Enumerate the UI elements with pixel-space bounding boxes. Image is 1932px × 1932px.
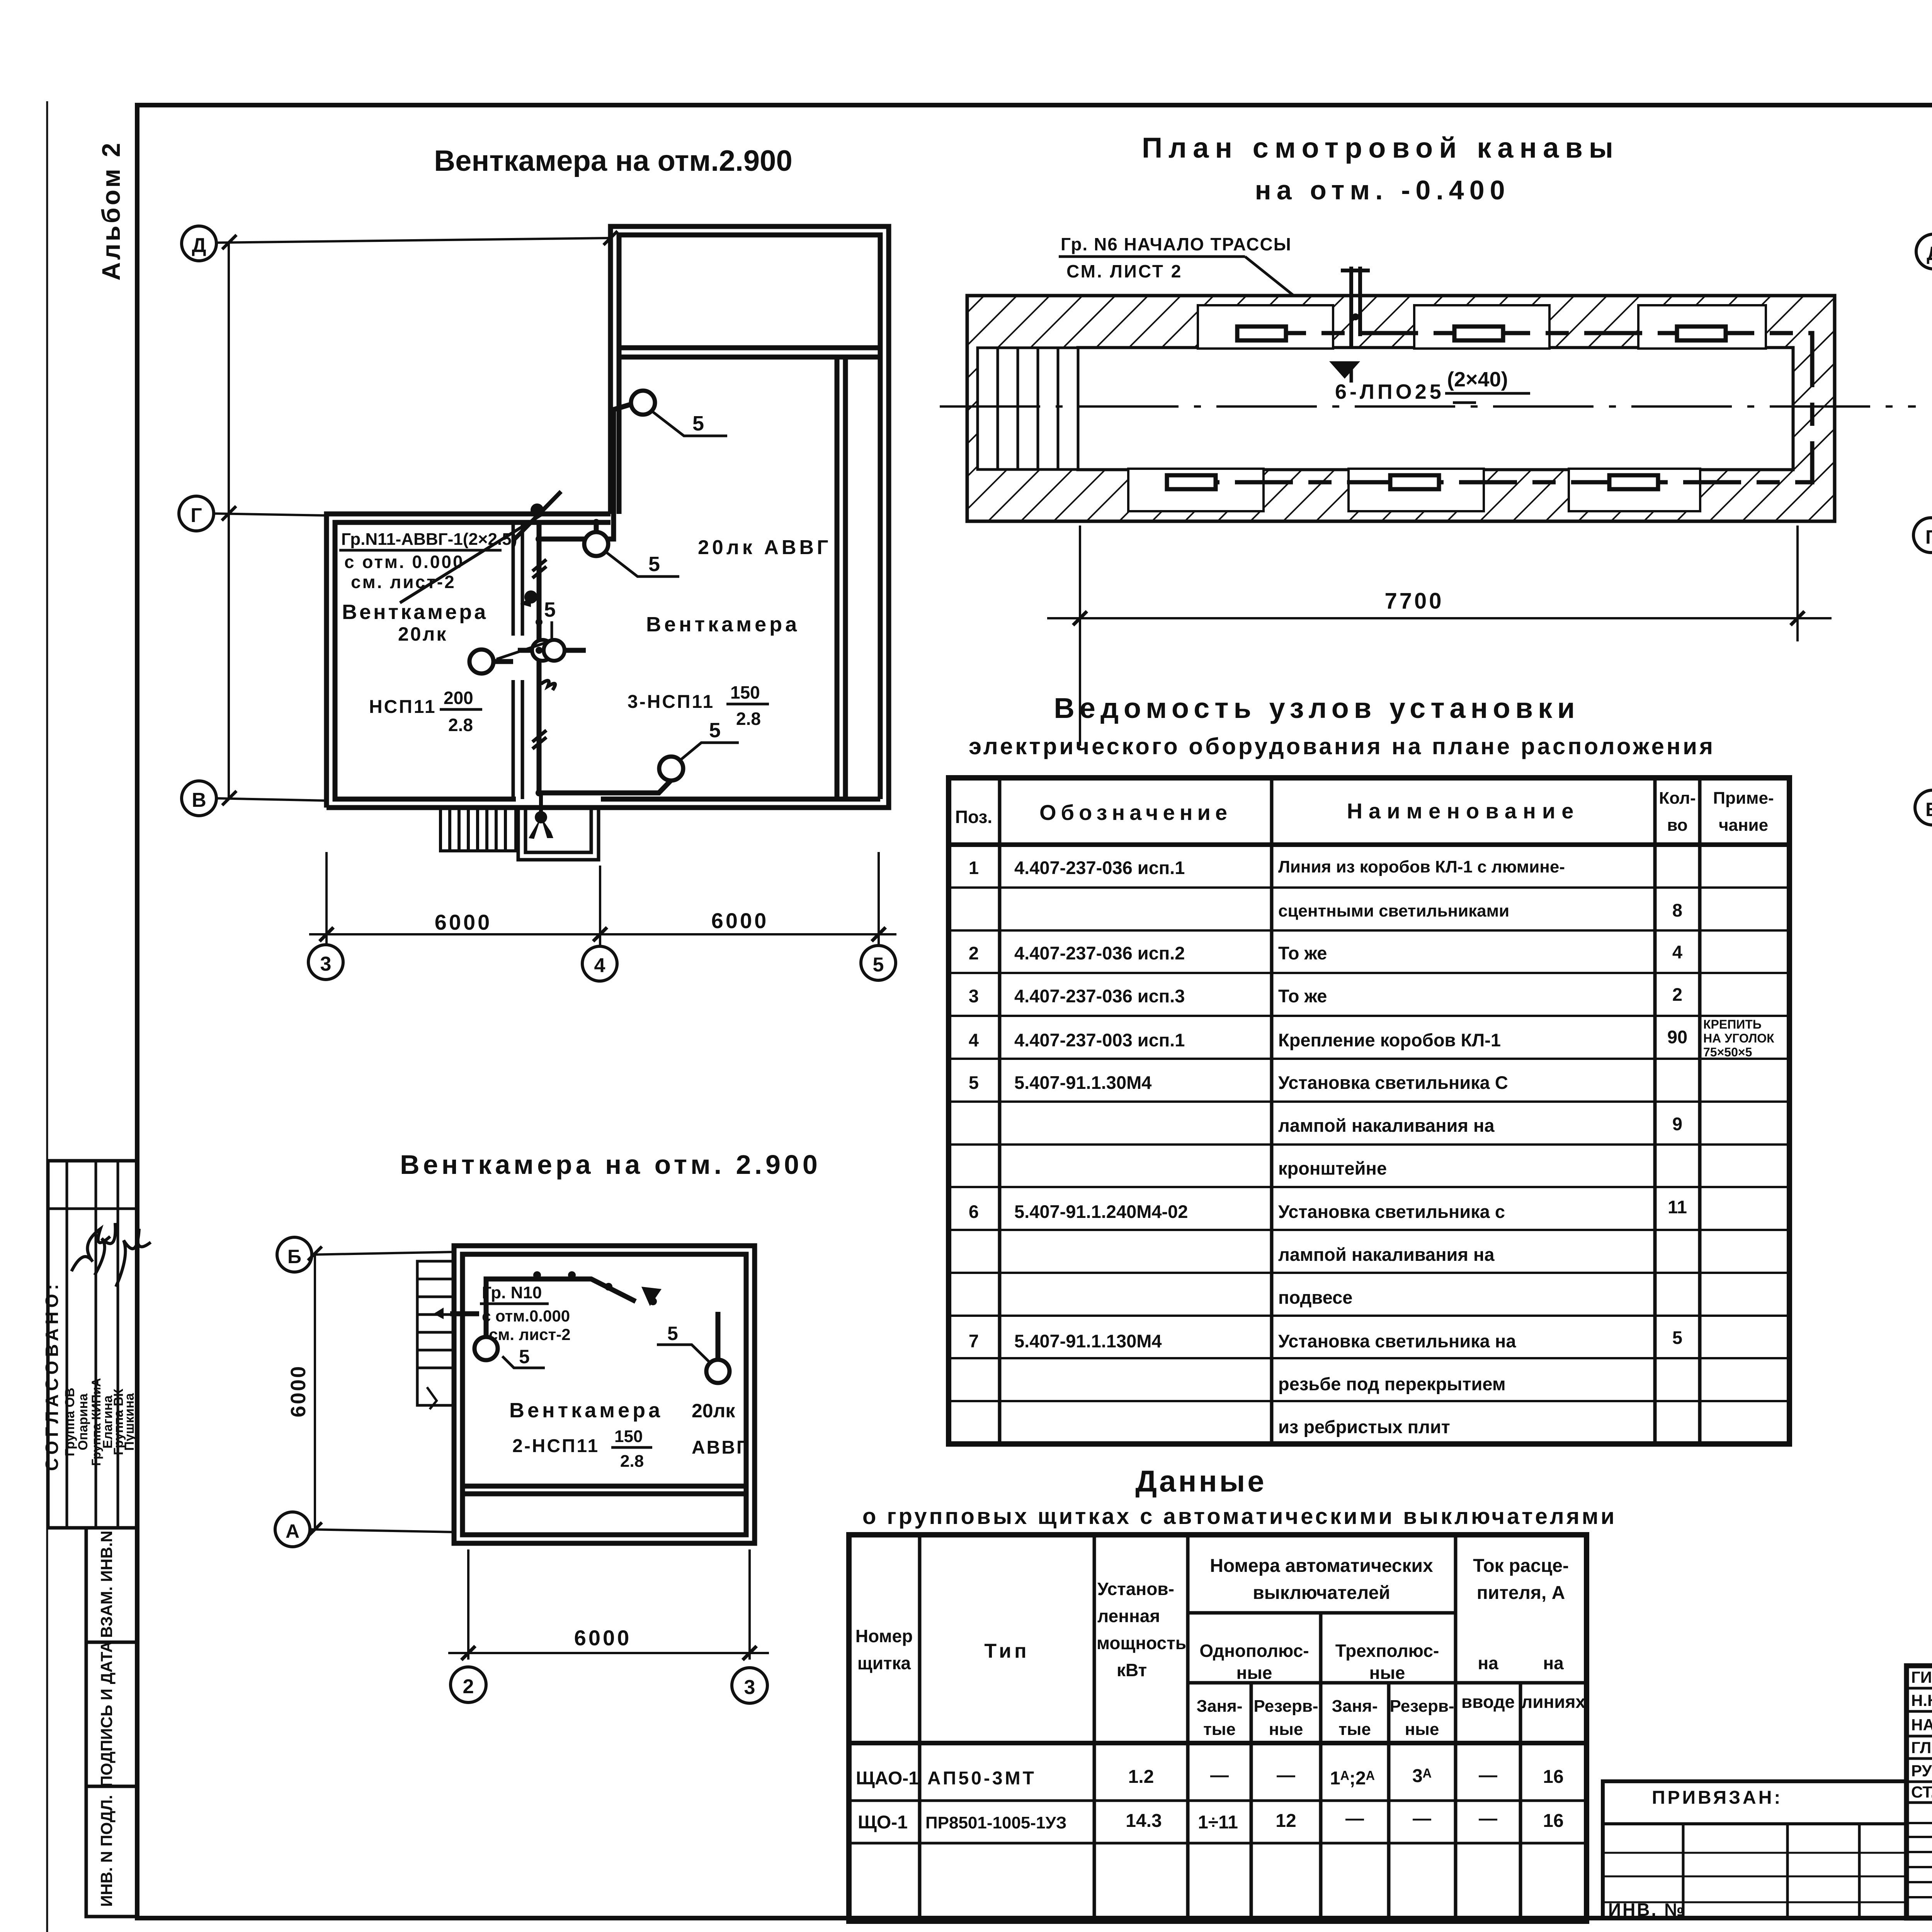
plan1 fixture dot at Г wall [531, 503, 544, 517]
svg-text:см. лист-2: см. лист-2 [351, 572, 456, 592]
svg-text:лампой накаливания на: лампой накаливания на [1278, 1115, 1495, 1136]
plan1 grid axis Г [179, 496, 327, 531]
svg-text:Венткамера на отм. 2.900: Венткамера на отм. 2.900 [400, 1150, 821, 1180]
left stamp column boxes [48, 1161, 137, 1917]
svg-text:В: В [1925, 799, 1932, 820]
svg-text:Гр. N6 НАЧАЛО ТРАССЫ: Гр. N6 НАЧАЛО ТРАССЫ [1061, 234, 1292, 254]
svg-text:Обозначение: Обозначение [1039, 800, 1232, 825]
plan1 lamp L4 [659, 757, 683, 781]
svg-text:тые: тые [1203, 1720, 1236, 1739]
svg-text:ные: ные [1369, 1663, 1405, 1683]
svg-text:Опарина: Опарина [76, 1393, 90, 1450]
svg-text:о групповых щитках с автомат: о групповых щитках с автоматическими вык… [862, 1504, 1617, 1529]
svg-text:6000: 6000 [574, 1626, 632, 1650]
svg-text:1: 1 [969, 857, 979, 878]
svg-text:200: 200 [444, 688, 473, 708]
svg-text:150: 150 [730, 682, 760, 702]
svg-text:НСП11: НСП11 [369, 697, 437, 717]
plan1 axis bubble 5 [861, 946, 896, 980]
plan1 junction dots [536, 536, 543, 543]
svg-text:7: 7 [969, 1331, 979, 1351]
svg-text:Трехполюс-: Трехполюс- [1335, 1641, 1439, 1661]
svg-text:6000: 6000 [287, 1365, 310, 1417]
channel lamp niches top [1198, 305, 1766, 349]
plan3 wiring [450, 1279, 718, 1360]
svg-text:16: 16 [1543, 1767, 1563, 1787]
plan1 walls left room [327, 514, 880, 808]
plan3 axis bubble 3 [732, 1668, 767, 1703]
svg-text:3: 3 [969, 986, 979, 1006]
svg-text:5: 5 [873, 954, 884, 976]
svg-text:9: 9 [1672, 1114, 1682, 1134]
svg-text:Линия из коробов КЛ-1 с люмине: Линия из коробов КЛ-1 с люмине- [1278, 857, 1565, 876]
svg-text:АВВГ: АВВГ [692, 1437, 748, 1458]
plan1 leader L2 [607, 553, 679, 577]
svg-text:СОГЛАСОВАНО:: СОГЛАСОВАНО: [42, 1280, 62, 1471]
plan1 wiring [493, 404, 671, 793]
svg-text:с отм.0.000: с отм.0.000 [482, 1307, 570, 1325]
svg-text:Альбом 2: Альбом 2 [97, 141, 125, 281]
svg-text:Венткамера: Венткамера [342, 600, 488, 624]
svg-text:(2×40): (2×40) [1447, 368, 1508, 391]
plan3 walls [454, 1246, 755, 1543]
svg-text:5: 5 [519, 1346, 530, 1367]
table2 headers [855, 1556, 1586, 1739]
svg-text:Наименование: Наименование [1347, 799, 1580, 823]
svg-text:ПРИВЯЗАН:: ПРИВЯЗАН: [1652, 1787, 1782, 1808]
svg-text:2: 2 [969, 943, 979, 963]
svg-text:Номера автоматических: Номера автоматических [1210, 1556, 1433, 1576]
svg-text:—: — [1479, 1765, 1497, 1786]
svg-text:Н.КОНТР.: Н.КОНТР. [1911, 1691, 1932, 1709]
svg-text:6-ЛПО25: 6-ЛПО25 [1335, 380, 1444, 403]
svg-text:То же: То же [1278, 986, 1327, 1006]
signature labels [1911, 1668, 1932, 1801]
svg-text:—: — [1277, 1765, 1295, 1786]
svg-text:В: В [192, 789, 206, 811]
svg-text:Резерв-: Резерв- [1253, 1697, 1318, 1716]
svg-text:20лк: 20лк [398, 623, 447, 645]
svg-text:4: 4 [969, 1030, 979, 1050]
plan1 leader L1 [652, 411, 727, 436]
svg-text:НА УГОЛОК: НА УГОЛОК [1703, 1031, 1774, 1045]
svg-text:ИНВ. №: ИНВ. № [1608, 1900, 1685, 1920]
svg-text:с отм. 0.000: с отм. 0.000 [344, 552, 464, 572]
svg-text:резьбе под перекрытием: резьбе под перекрытием [1278, 1374, 1506, 1394]
инв N подл box [86, 1786, 137, 1917]
plan3 stairs outside left [417, 1261, 454, 1409]
channel feed drop [1341, 267, 1370, 348]
svg-text:Группа ОВ: Группа ОВ [63, 1388, 77, 1456]
plan1 leader L4 [681, 743, 739, 760]
svg-text:2: 2 [463, 1675, 474, 1698]
svg-text:2.8: 2.8 [736, 709, 761, 729]
svg-text:сцентными светильниками: сцентными светильниками [1278, 901, 1509, 920]
svg-text:ные: ные [1236, 1663, 1272, 1683]
plan2 grid axis В [1915, 790, 1932, 825]
svg-text:5.407-91.1.240М4-02: 5.407-91.1.240М4-02 [1014, 1201, 1188, 1222]
plan1 bottom dimension [309, 852, 896, 947]
plan3 lamp left [474, 1337, 498, 1360]
svg-text:Ведомость узлов установки: Ведомость узлов установки [1054, 692, 1580, 724]
взам инв box [86, 1528, 137, 1642]
svg-text:ПР8501-1005-1УЗ: ПР8501-1005-1УЗ [925, 1813, 1066, 1832]
svg-text:5: 5 [709, 719, 721, 742]
svg-text:пителя, А: пителя, А [1477, 1583, 1565, 1603]
svg-text:4: 4 [1672, 942, 1682, 962]
svg-text:1÷11: 1÷11 [1198, 1812, 1238, 1833]
plan2 grid axis Г [1913, 518, 1932, 553]
svg-text:ные: ные [1269, 1720, 1303, 1739]
svg-text:6000: 6000 [711, 908, 769, 933]
svg-text:НАЧ. ОТД: НАЧ. ОТД [1911, 1716, 1932, 1734]
svg-text:ленная: ленная [1097, 1606, 1160, 1626]
channel wiring dashed top [1182, 333, 1812, 482]
svg-text:4: 4 [594, 954, 605, 977]
svg-text:ИНВ. N ПОДЛ.: ИНВ. N ПОДЛ. [97, 1795, 116, 1907]
svg-text:16: 16 [1543, 1811, 1563, 1831]
svg-text:электрического оборудования на: электрического оборудования на плане рас… [969, 733, 1715, 759]
svg-text:—: — [1210, 1765, 1229, 1786]
svg-text:7700: 7700 [1384, 588, 1444, 614]
svg-text:ГЛ.СПЕЦ: ГЛ.СПЕЦ [1911, 1738, 1932, 1757]
plan1 stairs [440, 808, 516, 851]
svg-text:Г: Г [190, 504, 202, 527]
channel stairs left [978, 348, 1078, 469]
svg-text:—: — [1479, 1808, 1497, 1829]
plan1 lamp L2 [584, 532, 608, 556]
plan1 grid axis Д [182, 226, 617, 798]
plan1 lamp L1 [631, 391, 655, 415]
channel lamps top row [1237, 327, 1726, 340]
svg-text:5: 5 [969, 1072, 979, 1093]
svg-text:Кол-: Кол- [1659, 789, 1696, 808]
approval signatures squiggles [71, 1223, 151, 1287]
svg-text:Номер: Номер [855, 1626, 913, 1646]
svg-text:А: А [286, 1520, 299, 1542]
svg-text:Гр. N10: Гр. N10 [482, 1283, 542, 1302]
svg-text:кВт: кВт [1117, 1660, 1147, 1680]
signature rows [1906, 1687, 1932, 1690]
svg-text:на: на [1543, 1653, 1564, 1673]
привязан box [1603, 1781, 1906, 1918]
svg-text:СМ. ЛИСТ 2: СМ. ЛИСТ 2 [1066, 261, 1182, 281]
svg-text:4.407-237-036 исп.3: 4.407-237-036 исп.3 [1014, 986, 1185, 1006]
svg-text:мощность: мощность [1097, 1633, 1186, 1653]
svg-text:КРЕПИТЬ: КРЕПИТЬ [1703, 1017, 1762, 1031]
svg-text:Венткамера: Венткамера [646, 613, 800, 636]
svg-text:3: 3 [744, 1676, 755, 1699]
svg-text:щитка: щитка [857, 1653, 911, 1673]
title block outer [1906, 1666, 1932, 1918]
svg-text:Установ-: Установ- [1097, 1579, 1174, 1599]
svg-text:линиях: линиях [1521, 1692, 1585, 1712]
plan1 riser marks [532, 560, 555, 749]
svg-text:лампой накаливания на: лампой накаливания на [1278, 1244, 1495, 1265]
svg-text:ЩАО-1: ЩАО-1 [856, 1768, 919, 1789]
svg-text:14.3: 14.3 [1126, 1811, 1162, 1831]
svg-text:из ребристых плит: из ребристых плит [1278, 1417, 1450, 1437]
plan1 partition wall [513, 522, 522, 799]
svg-text:Венткамера: Венткамера [509, 1399, 663, 1422]
svg-text:ЩО-1: ЩО-1 [858, 1812, 908, 1833]
table2 grid [849, 1535, 1587, 1921]
svg-text:3-НСП11: 3-НСП11 [628, 692, 714, 712]
svg-text:Пушкина: Пушкина [122, 1393, 137, 1451]
svg-text:ные: ные [1405, 1720, 1439, 1739]
svg-text:ВЗАМ. ИНВ.N: ВЗАМ. ИНВ.N [97, 1531, 116, 1638]
svg-text:кронштейне: кронштейне [1278, 1158, 1387, 1179]
svg-text:5: 5 [692, 412, 704, 435]
svg-text:5.407-91.1.30М4: 5.407-91.1.30М4 [1014, 1072, 1151, 1093]
svg-text:6: 6 [969, 1201, 979, 1222]
channel centerline [940, 405, 1916, 408]
svg-text:3: 3 [320, 953, 332, 975]
plan1 grid axis В [182, 781, 327, 816]
plan3 axis bubble 2 [451, 1667, 486, 1702]
table1 note cell [1703, 1017, 1774, 1059]
svg-text:5: 5 [544, 598, 556, 621]
svg-text:5: 5 [648, 553, 660, 576]
svg-text:2-НСП11: 2-НСП11 [512, 1436, 599, 1456]
table2 data rows [856, 1765, 1564, 1833]
svg-text:20лк: 20лк [692, 1400, 735, 1422]
svg-text:3ᴬ: 3ᴬ [1412, 1766, 1432, 1786]
svg-text:Данные: Данные [1135, 1464, 1266, 1498]
svg-text:5: 5 [1672, 1327, 1682, 1348]
svg-text:—: — [1345, 1808, 1364, 1829]
table1 rows [969, 857, 1687, 1437]
svg-text:вводе: вводе [1461, 1692, 1515, 1712]
svg-text:1.2: 1.2 [1128, 1767, 1154, 1787]
table1 grid [949, 778, 1789, 1444]
svg-text:Б: Б [287, 1246, 301, 1267]
svg-text:Крепление коробов КЛ-1: Крепление коробов КЛ-1 [1278, 1030, 1501, 1050]
подпись и дата box [86, 1642, 137, 1786]
svg-text:Тип: Тип [984, 1640, 1029, 1662]
plan1 transformer ЯТП [532, 640, 553, 661]
svg-text:—: — [1413, 1808, 1431, 1829]
svg-text:4.407-237-036 исп.2: 4.407-237-036 исп.2 [1014, 943, 1185, 963]
svg-text:11: 11 [1668, 1197, 1687, 1217]
svg-text:Заня-: Заня- [1197, 1697, 1243, 1716]
svg-text:подвесе: подвесе [1278, 1287, 1352, 1308]
svg-text:2: 2 [1672, 984, 1682, 1005]
svg-text:Заня-: Заня- [1332, 1697, 1378, 1716]
svg-text:Установка светильника с: Установка светильника с [1278, 1201, 1505, 1222]
svg-text:Поз.: Поз. [955, 807, 992, 827]
svg-text:тые: тые [1338, 1720, 1371, 1739]
svg-text:8: 8 [1672, 900, 1682, 920]
approval stamp box [48, 1161, 137, 1528]
svg-text:4.407-237-036 исп.1: 4.407-237-036 исп.1 [1014, 857, 1185, 878]
svg-text:2.8: 2.8 [448, 715, 473, 735]
svg-text:План смотровой канавы: План смотровой канавы [1142, 132, 1619, 164]
svg-text:Установка светильника на: Установка светильника на [1278, 1331, 1516, 1351]
plan1 entry vestibule [518, 808, 599, 860]
svg-text:90: 90 [1667, 1027, 1687, 1047]
svg-text:5: 5 [667, 1323, 678, 1344]
svg-text:2.8: 2.8 [620, 1452, 644, 1471]
svg-text:Д: Д [1927, 243, 1932, 264]
svg-text:Венткамера на отм.2.900: Венткамера на отм.2.900 [434, 145, 792, 177]
plan3 bottom dimension 6000 [448, 1549, 769, 1660]
svg-text:выключателей: выключателей [1253, 1583, 1390, 1603]
svg-text:СТ. ИНЖ.: СТ. ИНЖ. [1911, 1783, 1932, 1801]
plan3 grid axis А [275, 1512, 454, 1547]
svg-text:АП50-3МТ: АП50-3МТ [927, 1768, 1036, 1789]
plan3 grid axis Б [277, 1237, 454, 1529]
svg-text:во: во [1667, 816, 1687, 835]
svg-text:на: на [1478, 1653, 1498, 1673]
plan3 lamp right [706, 1360, 730, 1383]
svg-text:75×50×5: 75×50×5 [1703, 1045, 1752, 1059]
svg-text:6000: 6000 [1928, 345, 1932, 397]
svg-text:см. лист-2: см. лист-2 [489, 1325, 571, 1344]
rotated stamp texts [42, 1280, 137, 1907]
plan1 leader L3 [497, 621, 552, 659]
plan2 grid axis Д [1916, 234, 1932, 808]
svg-text:Однополюс-: Однополюс- [1199, 1641, 1309, 1661]
svg-text:6000: 6000 [435, 910, 492, 934]
channel lamp niches bottom [1128, 469, 1700, 511]
svg-text:ПОДПИСЬ И ДАТА: ПОДПИСЬ И ДАТА [97, 1641, 116, 1787]
plan1 lamp L3 [469, 650, 493, 673]
svg-text:Резерв-: Резерв- [1389, 1697, 1454, 1716]
svg-text:чание: чание [1719, 816, 1768, 835]
svg-text:Установка светильника С: Установка светильника С [1278, 1072, 1508, 1093]
svg-text:20лк АВВГ: 20лк АВВГ [698, 536, 831, 559]
channel lamps bottom row [1167, 475, 1658, 489]
svg-text:Приме-: Приме- [1713, 789, 1774, 808]
svg-text:5.407-91.1.130М4: 5.407-91.1.130М4 [1014, 1331, 1162, 1351]
channel dimension 7700 [1047, 526, 1832, 746]
svg-text:12: 12 [1276, 1811, 1296, 1831]
channel hatched walls [967, 296, 1835, 521]
svg-text:РУК. ГР.: РУК. ГР. [1911, 1762, 1932, 1780]
paper edge line left [46, 101, 48, 1928]
svg-text:ГИП: ГИП [1911, 1668, 1932, 1686]
svg-text:То же: То же [1278, 943, 1327, 963]
svg-text:6000: 6000 [1928, 642, 1932, 695]
plan1 walls right block [327, 226, 889, 808]
plan1 axis bubble 3 [308, 945, 343, 980]
svg-text:1ᴬ;2ᴬ: 1ᴬ;2ᴬ [1330, 1768, 1375, 1789]
svg-text:Г: Г [1925, 526, 1932, 548]
plan1 axis bubble 4 [582, 946, 617, 981]
svg-text:Ток расце-: Ток расце- [1473, 1556, 1569, 1576]
svg-text:150: 150 [614, 1427, 643, 1446]
svg-text:4.407-237-003 исп.1: 4.407-237-003 исп.1 [1014, 1030, 1185, 1050]
svg-text:на отм. -0.400: на отм. -0.400 [1255, 175, 1510, 205]
plan1 vestibule switch symbol [535, 811, 547, 823]
svg-text:Д: Д [192, 234, 206, 257]
